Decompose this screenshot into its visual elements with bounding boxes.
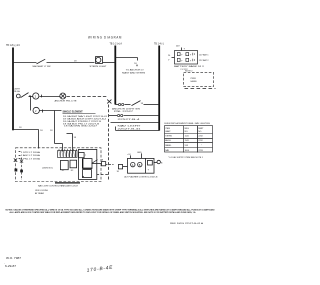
svg-text:18: 18 [141, 103, 144, 105]
svg-text:ALL LAMPS ARE 24 VOLT RATED SE: ALL LAMPS ARE 24 VOLT RATED SEE TABLE FO… [10, 211, 196, 214]
svg-text:NOTES: UNLESS OTHERWISE SPECIF: NOTES: UNLESS OTHERWISE SPECIFIED ALL WI… [6, 209, 215, 212]
svg-text:TB 1-4 (-): TB 1-4 (-) [154, 43, 164, 45]
panel output 1 [97, 163, 102, 165]
indicator light DS1 [96, 57, 103, 64]
battery BT1 box [175, 51, 198, 65]
svg-text:PANEL: PANEL [165, 144, 172, 147]
svg-text:MAST AND STERN: MAST AND STERN [122, 72, 146, 75]
wire left bus [12, 48, 14, 131]
svg-text:18: 18 [74, 60, 77, 62]
lamp DS4 row3 [30, 97, 32, 111]
wire chain line inner [21, 158, 23, 181]
svg-text:*: * [201, 145, 202, 147]
svg-text:TO ANCHOR LT: TO ANCHOR LT [126, 68, 145, 71]
flasher U1 box [128, 158, 155, 173]
wire drop from row3 [54, 111, 56, 144]
svg-text:18 GA: 18 GA [14, 90, 21, 93]
svg-text:ITEM: ITEM [165, 128, 170, 130]
svg-text:18: 18 [101, 159, 104, 161]
wire row2 a [29, 96, 33, 98]
svg-text:22527-B-41: 22527-B-41 [118, 128, 143, 130]
svg-text:+: + [184, 47, 186, 50]
svg-text:ANCHOR LIGHT SW: ANCHOR LIGHT SW [112, 107, 140, 110]
svg-text:2: 2 [35, 94, 37, 98]
svg-text:1 STR LT 18GA: 1 STR LT 18GA [21, 151, 41, 154]
terminal strip TB4 [58, 151, 78, 158]
svg-text:2: 2 [35, 109, 37, 113]
svg-text:18: 18 [134, 63, 137, 65]
wire row1 segment b [47, 62, 95, 64]
svg-text:+: + [190, 61, 192, 63]
breaker CB1 blade [92, 160, 98, 164]
svg-text:18 GA GRN GND 22527: 18 GA GRN GND 22527 [64, 125, 98, 128]
wire relay drop b [72, 134, 74, 152]
svg-text:ANCH: ANCH [165, 139, 171, 142]
svg-text:18: 18 [40, 130, 43, 132]
switch S3 blade [132, 101, 141, 106]
strip ticks [59, 149, 76, 151]
wire relay drop a [62, 144, 64, 152]
svg-text:18: 18 [19, 127, 22, 129]
svg-text:ANCHOR PNL LITE: ANCHOR PNL LITE [55, 99, 78, 102]
wire right bus [158, 46, 160, 131]
strip hatch [59, 151, 75, 157]
svg-text:[DWG NO]: [DWG NO] [43, 168, 53, 170]
svg-text:1004: 1004 [185, 150, 190, 152]
relay K2 [70, 160, 77, 168]
svg-text:6-29-87: 6-29-87 [5, 266, 17, 268]
svg-text:18: 18 [74, 137, 77, 139]
svg-text:+: + [190, 55, 192, 57]
junction row2 [29, 95, 31, 97]
breaker CB1 [83, 159, 93, 169]
svg-text:MFG: MFG [185, 128, 190, 130]
svg-text:NAV LIGHT CONTROL PANEL ASSY 2: NAV LIGHT CONTROL PANEL ASSY 22527 [38, 184, 79, 187]
svg-text:x: x [85, 154, 86, 156]
switch S1 blade [37, 59, 46, 64]
small box right of strip [79, 153, 85, 158]
svg-text:LAMP: LAMP [165, 130, 171, 133]
breaker CB2 [83, 170, 92, 178]
svg-text:ALT FLASHER CONTROL 22527-B: ALT FLASHER CONTROL 22527-B [124, 176, 158, 179]
splice X inner [20, 160, 23, 163]
svg-text:22527-B-4: 22527-B-4 [118, 119, 142, 121]
svg-text:18: 18 [117, 171, 120, 173]
svg-text:1141: 1141 [185, 136, 189, 138]
future dashed box [184, 73, 214, 87]
svg-text:NAV: NAV [165, 149, 170, 152]
wire L3 row y115.5 [109, 115, 117, 117]
svg-text:VIEW LOOKING: VIEW LOOKING [35, 190, 48, 192]
svg-text:V: V [168, 59, 170, 61]
svg-text:STERN: STERN [165, 136, 172, 138]
wire row1 segment a [14, 62, 37, 64]
svg-text:PNL 22527: PNL 22527 [114, 111, 135, 113]
battery cell ticks [193, 53, 195, 62]
svg-text:170-B-4E: 170-B-4E [86, 265, 113, 274]
switch S2 blade [21, 93, 29, 98]
lamp DS3 [60, 93, 66, 99]
svg-text:2 ANC LT 18GA: 2 ANC LT 18GA [21, 154, 41, 157]
svg-text:W.O. 7987: W.O. 7987 [6, 257, 22, 260]
wire L5 row y130.5 [115, 127, 117, 131]
wire row2 dashed [67, 96, 108, 98]
table frame [165, 126, 213, 152]
wire stub to anchor light [115, 57, 137, 59]
svg-text:2233: 2233 [198, 150, 202, 152]
svg-text:24: 24 [168, 55, 171, 57]
crossing mark square [15, 169, 18, 172]
svg-text:NAV MAST LT SW: NAV MAST LT SW [33, 65, 51, 68]
wire middle bus [114, 46, 116, 105]
wire L4 row y122 [111, 122, 160, 124]
svg-text:PWR: PWR [191, 78, 197, 80]
svg-text:NO.: NO. [185, 131, 189, 133]
svg-text:12V BAT 1: 12V BAT 1 [199, 53, 210, 56]
lamp DS2 [33, 93, 39, 99]
svg-text:18: 18 [50, 130, 53, 132]
svg-text:1141: 1141 [185, 140, 189, 142]
dashed tail [185, 87, 216, 89]
wire drop into panel [38, 130, 40, 149]
svg-text:24V: 24V [176, 45, 180, 47]
panel output 2 [97, 174, 109, 176]
wire L1 row y104 [115, 104, 118, 106]
splice X [107, 100, 111, 104]
wire row1 segment c [103, 62, 116, 64]
svg-text:3 PNL LT 18GA: 3 PNL LT 18GA [21, 157, 41, 160]
svg-text:WIRING DIAGRAM: WIRING DIAGRAM [88, 36, 122, 40]
svg-text:+: + [181, 55, 183, 57]
svg-text:53X: 53X [185, 145, 189, 147]
svg-text:STERN LIGHT: STERN LIGHT [90, 66, 108, 68]
svg-text:AT REAR: AT REAR [35, 192, 45, 195]
svg-text:* LOCAL SUPPLY ITEM SEE NOTE 1: * LOCAL SUPPLY ITEM SEE NOTE 1 [168, 156, 204, 159]
panel mounting bar [55, 182, 80, 184]
svg-text:BATTERY BANK 24 V: BATTERY BANK 24 V [174, 65, 205, 68]
svg-text:2232: 2232 [198, 140, 202, 142]
svg-text:BULB REPLACEMENT DATA - NAV LI: BULB REPLACEMENT DATA - NAV LIGHTING [164, 122, 210, 125]
svg-text:K2: K2 [71, 170, 74, 172]
svg-text:REF DWG 22527-B-41 A: REF DWG 22527-B-41 A [170, 222, 204, 225]
svg-text:TB 1-2 (+) A: TB 1-2 (+) A [110, 42, 123, 45]
flasher right stub [154, 162, 158, 164]
breaker compartment [79, 149, 97, 179]
svg-text:2232: 2232 [198, 136, 202, 138]
svg-text:B: B [161, 162, 163, 164]
wire dashed vertical feeder [108, 105, 110, 181]
svg-text:,: , [5, 262, 6, 264]
crossing mark X [14, 158, 17, 161]
wire row4 bus bottom [14, 129, 39, 131]
svg-text:PART: PART [198, 127, 204, 130]
wire row2 b [40, 96, 61, 98]
terminal row2 circle [16, 94, 20, 98]
svg-text:12V BAT 2: 12V BAT 2 [199, 59, 210, 62]
splice square inner [20, 170, 23, 173]
svg-text:NAV LIGHT: NAV LIGHT [118, 125, 143, 128]
svg-text:HERE: HERE [191, 81, 198, 83]
svg-text:+: + [148, 168, 150, 171]
relay K1 [60, 161, 68, 170]
svg-text:+: + [181, 61, 183, 63]
flasher left terminal [118, 165, 122, 169]
panel terminal list [19, 151, 21, 153]
svg-text:NO.: NO. [198, 131, 202, 133]
control panel enclosure [16, 148, 102, 182]
svg-text:TB 1-8 (+) 24: TB 1-8 (+) 24 [6, 45, 20, 47]
